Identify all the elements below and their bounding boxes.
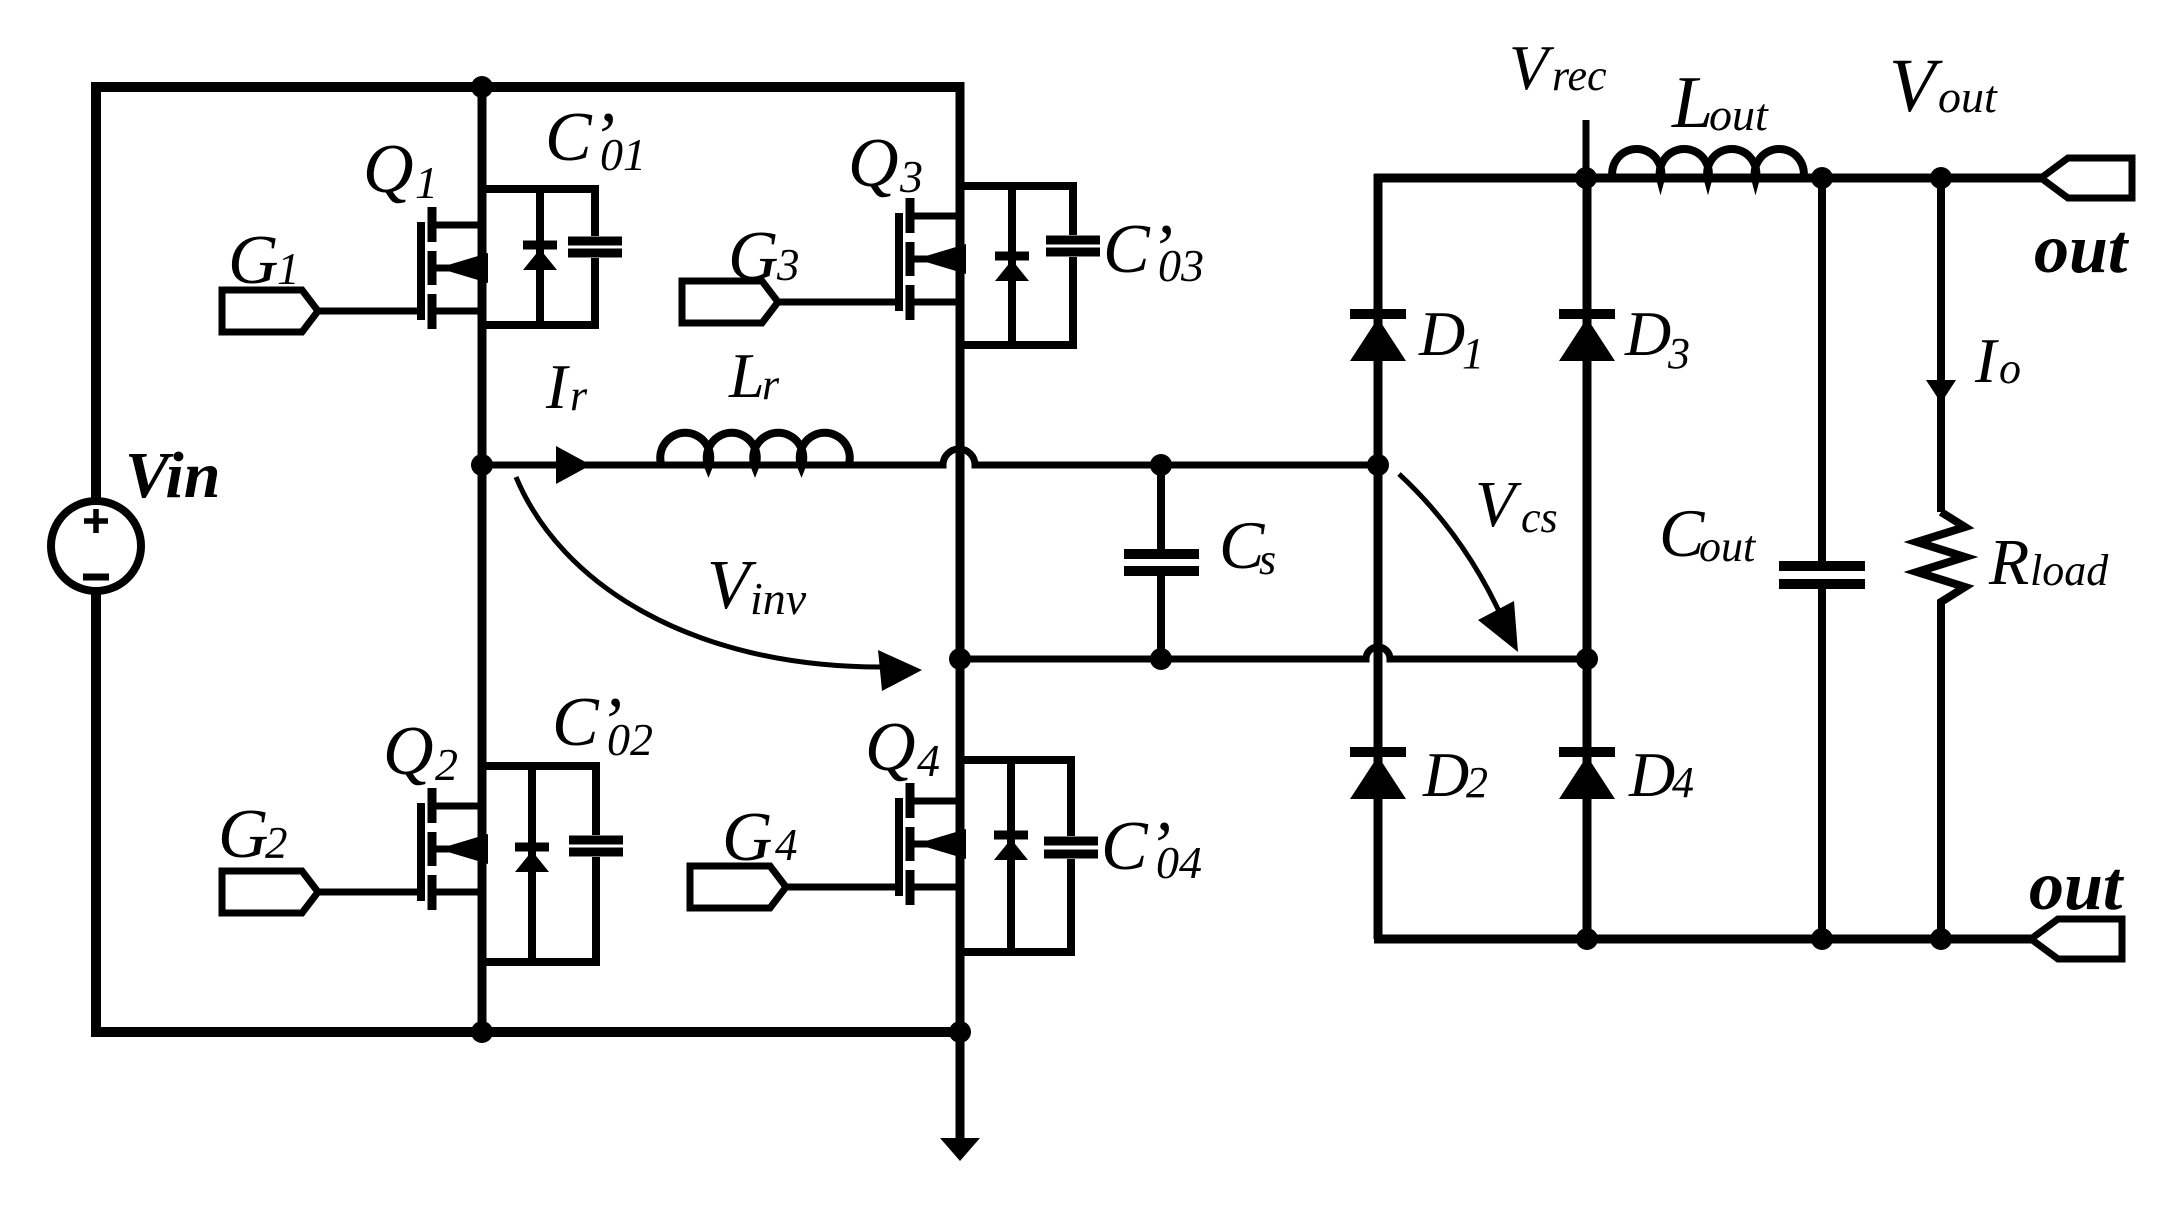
- svg-text:s: s: [1259, 535, 1276, 584]
- svg-text:3: 3: [1667, 329, 1690, 378]
- svg-text:G: G: [728, 218, 779, 295]
- svg-text:1: 1: [415, 157, 438, 208]
- svg-text:G: G: [722, 799, 773, 876]
- svg-text:out: out: [1699, 522, 1757, 571]
- svg-text:3: 3: [776, 240, 800, 290]
- svg-text:D: D: [1624, 298, 1671, 369]
- svg-text:R: R: [1988, 526, 2029, 599]
- svg-text:Vin: Vin: [125, 439, 220, 512]
- svg-text:r: r: [762, 360, 780, 409]
- svg-text:V: V: [1889, 44, 1943, 128]
- svg-text:out: out: [2034, 211, 2130, 288]
- svg-text:01: 01: [600, 129, 646, 180]
- svg-text:02: 02: [607, 714, 653, 765]
- svg-text:Q: Q: [848, 125, 899, 202]
- svg-text:Q: Q: [363, 131, 414, 208]
- svg-text:G: G: [218, 796, 269, 873]
- svg-text:2: 2: [1466, 758, 1488, 807]
- svg-text:4: 4: [917, 735, 940, 786]
- svg-text:Q: Q: [383, 713, 434, 790]
- svg-text:load: load: [2030, 546, 2109, 595]
- svg-text:D: D: [1422, 739, 1469, 810]
- svg-text:inv: inv: [750, 573, 807, 624]
- svg-text:I: I: [1974, 325, 1999, 396]
- svg-text:r: r: [570, 371, 588, 420]
- svg-text:I: I: [545, 351, 570, 422]
- svg-text:out: out: [2029, 848, 2125, 925]
- svg-text:L: L: [728, 340, 765, 411]
- svg-text:rec: rec: [1552, 51, 1607, 100]
- svg-text:2: 2: [265, 818, 288, 868]
- svg-text:D: D: [1628, 739, 1675, 810]
- svg-text:o: o: [1999, 344, 2021, 393]
- svg-text:Q: Q: [865, 709, 916, 786]
- svg-text:3: 3: [899, 151, 923, 202]
- svg-text:4: 4: [775, 820, 798, 870]
- svg-text:cs: cs: [1521, 493, 1558, 542]
- svg-text:1: 1: [1462, 329, 1484, 378]
- svg-text:03: 03: [1158, 240, 1204, 291]
- svg-text:G: G: [228, 222, 279, 299]
- svg-text:L: L: [1671, 62, 1713, 144]
- svg-text:out: out: [1709, 89, 1769, 140]
- svg-text:4: 4: [1672, 758, 1694, 807]
- svg-text:1: 1: [277, 244, 300, 294]
- svg-text:2: 2: [435, 739, 458, 790]
- svg-text:04: 04: [1156, 837, 1202, 888]
- svg-text:D: D: [1418, 298, 1465, 369]
- svg-text:V: V: [1475, 468, 1522, 541]
- svg-text:out: out: [1938, 71, 1998, 122]
